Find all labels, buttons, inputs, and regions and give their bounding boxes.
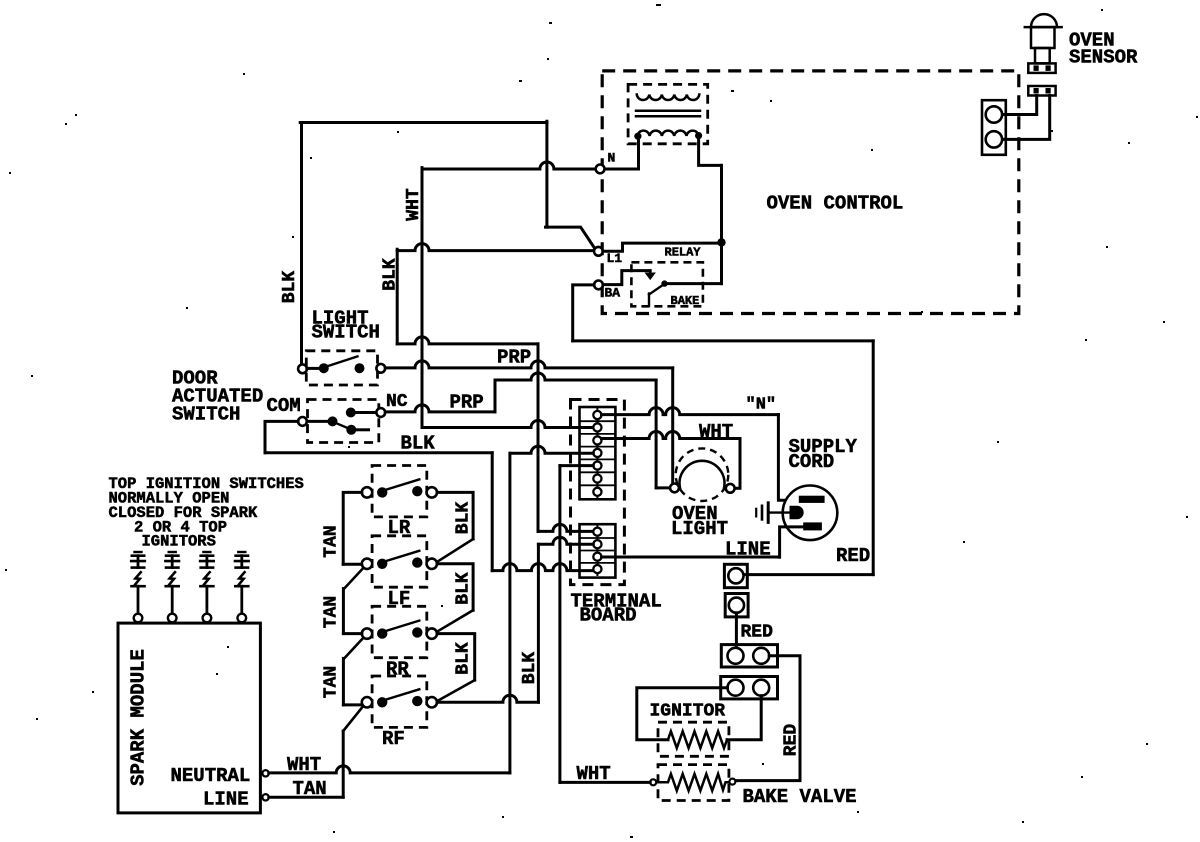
wire LR output [437, 492, 473, 539]
wire WHT neutral run [269, 766, 510, 773]
wire sensor left lead [1002, 96, 1036, 115]
oven sensor mating block [1028, 86, 1055, 96]
svg-text:LINE: LINE [203, 789, 249, 811]
svg-text:IGNITORS: IGNITORS [142, 533, 216, 551]
switch RF contacts [377, 697, 387, 707]
oven sensor neck [1035, 48, 1050, 63]
receptacle pin 2 [986, 131, 1002, 147]
wire PRP drop x=656.1 [655, 380, 658, 488]
svg-text:BLK: BLK [453, 572, 473, 605]
connector square 2 pin [729, 598, 744, 613]
terminal pin T7 [593, 488, 601, 496]
oven light right terminal [726, 484, 735, 493]
transformer secondary right dot [695, 132, 702, 139]
terminal strip upper dividers [580, 420, 616, 422]
terminal BA [594, 281, 603, 290]
wire BLK from COM [265, 421, 298, 452]
svg-text:BLK: BLK [280, 271, 300, 304]
oven light left terminal [670, 484, 679, 493]
igniter 4 module terminal [238, 614, 247, 623]
diag LF-RR [438, 610, 474, 631]
svg-text:TAN: TAN [321, 666, 341, 698]
terminal board dashed box [571, 400, 625, 585]
wire LR input stub [343, 492, 362, 564]
svg-text:BOARD: BOARD [580, 605, 637, 627]
svg-text:PRP: PRP [450, 392, 484, 414]
svg-text:OVEN CONTROL: OVEN CONTROL [767, 193, 904, 215]
wire ignitor loop left [637, 688, 728, 740]
diag LR-LF [438, 539, 474, 562]
svg-text:RELAY: RELAY [665, 246, 702, 260]
terminal strip lower bus [596, 526, 598, 575]
svg-text:COM: COM [267, 395, 301, 417]
svg-text:L1: L1 [607, 251, 623, 266]
scan noise speckles [656, 4, 661, 6]
igniter 2 module terminal [168, 614, 177, 623]
wire to oven light left terminal [656, 486, 670, 489]
wire RR input stub [343, 632, 362, 635]
light switch left terminal [298, 364, 307, 373]
wire sensor right lead [1002, 96, 1049, 140]
wire RED riser x=873 [872, 341, 875, 575]
wire relay to junction [665, 282, 722, 285]
wire BLK riser x=538.4 (RF return) [537, 544, 540, 702]
svg-text:TAN: TAN [293, 778, 327, 800]
switch LF right terminal [427, 559, 437, 569]
terminal strip lower dividers [580, 537, 616, 539]
terminal pin B1 [593, 528, 601, 536]
wire BLK drop x=397 [396, 249, 399, 344]
svg-text:NEUTRAL: NEUTRAL [171, 765, 251, 787]
wire BLK vertical from top loop to light switch [300, 123, 303, 365]
sensor receptacle [982, 100, 1006, 155]
module LINE terminal [262, 794, 268, 800]
oven light bulb outline [676, 448, 729, 501]
switch RR box [372, 606, 427, 657]
connector square 1 pin [728, 568, 743, 583]
wire N terminal to secondary [604, 136, 638, 169]
wire BLK b1 link [538, 524, 593, 531]
transformer secondary coil [637, 131, 698, 136]
bake valve right terminal [729, 779, 735, 785]
terminal pin B3 [593, 553, 601, 561]
svg-text:TAN: TAN [321, 596, 341, 628]
block1 left pin [728, 648, 744, 664]
wire RR output [437, 634, 475, 681]
oven sensor bulb dome [1031, 14, 1057, 27]
oven sensor flange line [1025, 26, 1062, 29]
svg-text:CORD: CORD [789, 451, 835, 473]
oven light filament [680, 461, 725, 488]
wire WHT horizontal from N terminal [422, 162, 596, 169]
switch RF box [372, 676, 427, 727]
oven sensor plug block [1028, 63, 1055, 73]
igniter 1 symbol [135, 551, 142, 553]
oven control dashed box [602, 71, 1019, 314]
igniter 3 module terminal [203, 614, 212, 623]
wire BLK jog toward L1 with diagonal [546, 227, 595, 248]
svg-text:WHT: WHT [699, 421, 733, 443]
svg-text:"N": "N" [746, 396, 777, 415]
wire TAN riser [342, 731, 345, 797]
switch RF left terminal [362, 697, 372, 707]
wire WHT lower run to terminal board pin 2 [422, 421, 593, 428]
terminal pin T1 [593, 411, 601, 419]
svg-text:IGNITOR: IGNITOR [650, 702, 726, 722]
wire BLK top horizontal [300, 121, 547, 124]
igniter 1 module terminal [134, 614, 143, 623]
supply plug ground pin [790, 506, 804, 519]
module NEUTRAL terminal [262, 770, 268, 776]
svg-text:BLK: BLK [520, 652, 540, 685]
supply plug neutral blade [799, 496, 825, 503]
svg-text:BA: BA [605, 286, 621, 301]
wire T4 neutral link [511, 446, 594, 453]
svg-text:SENSOR: SENSOR [1069, 47, 1138, 69]
diag LF to chain [344, 568, 363, 589]
svg-text:BAKE VALVE: BAKE VALVE [743, 786, 857, 808]
ground symbol [767, 503, 770, 523]
wire LF output [437, 564, 473, 610]
light switch contacts [307, 367, 319, 370]
wire NC output [385, 405, 495, 412]
svg-text:SWITCH: SWITCH [172, 404, 240, 426]
transformer dashed box [628, 84, 708, 143]
transformer primary coil [637, 95, 700, 101]
wire T1 to supply N [602, 408, 779, 415]
wire BLK riser x=538 to terminal b1 [537, 344, 540, 532]
transformer core [636, 110, 700, 113]
terminal strip upper bus [596, 409, 598, 497]
wire BLK run y=344 [397, 337, 538, 344]
terminal block pair 2 [721, 677, 778, 699]
wire RF output [437, 695, 538, 702]
spark module box [118, 623, 260, 813]
wire T5 to bake WHT [560, 464, 593, 467]
svg-text:LINE: LINE [725, 539, 771, 561]
igniter 3 symbol [203, 551, 210, 553]
diag LINE TAN to RF [343, 707, 363, 731]
svg-text:LIGHT: LIGHT [671, 518, 728, 540]
switch LF contacts [377, 559, 387, 569]
wire BA to relay contact [603, 271, 650, 285]
terminal block pair 1 [721, 645, 777, 667]
light switch box [306, 351, 377, 385]
wire RF input stub [343, 703, 362, 706]
wire NC riser x=495 [494, 380, 497, 412]
connector square 1 [724, 564, 747, 587]
switch LF left terminal [362, 559, 372, 569]
bake relay dashed box [631, 262, 703, 306]
door switch contacts [307, 420, 328, 423]
door switch COM terminal [298, 417, 307, 426]
diag RR to chain [344, 638, 363, 659]
supply cord plug outline [783, 486, 838, 541]
wire junction riser [720, 165, 723, 283]
wire PRP drop x=672.7 [671, 368, 674, 484]
block1 right pin [753, 648, 769, 664]
svg-text:BLK: BLK [453, 642, 473, 675]
terminal L1 [594, 247, 603, 256]
wire TAN line run [269, 796, 343, 799]
wire RED long run [573, 339, 874, 342]
svg-text:SWITCH: SWITCH [312, 322, 380, 344]
terminal pin T4 [593, 449, 601, 457]
wire L1 to junction [603, 243, 722, 251]
igniter 4 symbol [238, 551, 245, 553]
switch LR box [372, 466, 427, 517]
switch LR contacts [377, 487, 387, 497]
light switch right terminal [376, 364, 385, 373]
relay fixed contact arrow [649, 271, 651, 272]
wire RED to connector [744, 573, 874, 576]
svg-text:N: N [608, 151, 616, 166]
svg-text:RED: RED [836, 545, 870, 567]
wire WHT riser x=559.9 [558, 466, 561, 783]
ignitor dashed box [658, 722, 729, 756]
switch RR contacts [377, 628, 387, 638]
junction dot [717, 238, 725, 246]
terminal pin B4 [593, 565, 601, 573]
wire b4 link [492, 564, 593, 571]
svg-text:PRP: PRP [497, 347, 531, 369]
wire oven light right drop [735, 439, 740, 489]
svg-text:TAN: TAN [321, 525, 341, 557]
svg-text:WHT: WHT [287, 754, 321, 776]
svg-text:RF: RF [382, 728, 405, 750]
terminal pin T6 [593, 475, 601, 483]
transformer secondary left dot [634, 133, 641, 140]
terminal pin B2 [593, 540, 601, 548]
block2 left pin [728, 680, 744, 696]
wire chain low [342, 658, 345, 705]
wire square2 drop [735, 613, 738, 645]
wire BLK drop x=492 to terminal b4 [491, 453, 494, 571]
wire b2 link [538, 537, 593, 544]
relay moving arm [649, 285, 664, 295]
svg-text:NC: NC [386, 392, 408, 412]
terminal N [596, 165, 605, 174]
wire N drop to plug [778, 415, 798, 501]
wire BLK from L1 leftward [397, 244, 594, 251]
terminal strip lower block [580, 524, 616, 577]
switch LF box [372, 536, 427, 587]
supply plug line blade [803, 522, 822, 530]
wire ignitor loop right [727, 696, 761, 740]
svg-text:BLK: BLK [401, 433, 436, 455]
bake valve dashed box [658, 765, 729, 801]
wire WHT to bake valve [560, 781, 650, 784]
switch RR left terminal [362, 628, 372, 638]
receptacle pin 1 [986, 106, 1002, 122]
bake valve resistor element [656, 774, 729, 791]
svg-text:BAKE: BAKE [671, 294, 700, 308]
wire LF input stub [343, 563, 362, 566]
igniter 2 symbol [169, 551, 176, 553]
block2 right pin [753, 680, 769, 696]
door switch box [308, 400, 379, 443]
svg-text:SPARK MODULE: SPARK MODULE [127, 649, 149, 786]
ignitor resistor element [668, 731, 727, 748]
wire chain mid [342, 589, 345, 634]
terminal strip upper block [580, 407, 616, 499]
wire secondary right to junction [699, 136, 722, 165]
wire b3 LINE run [602, 556, 779, 559]
wire WHT riser x=509.9 [508, 453, 511, 773]
switch LR left terminal [362, 487, 372, 497]
terminal pin T5 [593, 462, 601, 470]
terminal pin T2 [593, 423, 601, 431]
wire BLK COM run [265, 451, 492, 454]
wire T3 to oven light [602, 432, 741, 439]
wire BA red drop [573, 285, 594, 341]
svg-text:WHT: WHT [577, 763, 611, 785]
wire BLK right drop to L1 area [545, 121, 548, 227]
oven sensor body [1031, 27, 1055, 48]
wire PRP upper run [495, 373, 656, 380]
switch RF right terminal [427, 697, 437, 707]
wire block1 to bake valve [736, 656, 800, 781]
relay pivot dot [661, 280, 667, 286]
wire LINE blade drop [780, 527, 804, 557]
switch LR right terminal [427, 487, 437, 497]
switch RR right terminal [427, 628, 437, 638]
door switch NC terminal [376, 408, 385, 417]
relay arm contact stub [648, 294, 650, 307]
wire WHT vertical riser x=422 [421, 168, 424, 428]
svg-text:RED: RED [741, 623, 774, 643]
bake valve left terminal [650, 779, 656, 785]
svg-text:BLK: BLK [453, 502, 473, 535]
wire ground to plug [768, 511, 789, 513]
connector square 2 [725, 594, 748, 617]
terminal pin T3 [593, 436, 601, 444]
svg-text:RED: RED [781, 724, 801, 757]
wire PRP from light switch [385, 361, 673, 368]
diag RR-RF [438, 680, 475, 701]
